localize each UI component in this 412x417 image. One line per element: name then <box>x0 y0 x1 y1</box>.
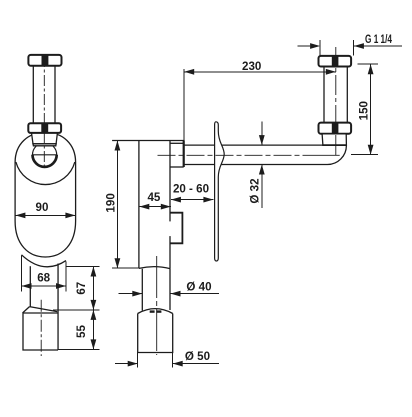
svg-text:190: 190 <box>104 193 117 212</box>
inlet ball joint (thin outline) <box>33 143 57 167</box>
svg-text:20 - 60: 20 - 60 <box>173 183 209 196</box>
dimension 190 (body height) <box>112 141 139 269</box>
svg-text:230: 230 <box>242 60 261 73</box>
cup grip marks <box>150 310 155 312</box>
dimension 20 - 60 (wall distance range) <box>171 199 214 201</box>
centerline of trap cup (front view) <box>40 300 42 356</box>
svg-text:45: 45 <box>147 191 160 204</box>
wall connection flange block <box>170 142 184 144</box>
dimension 230 (flange to riser axis) <box>184 69 336 141</box>
riser union nuts <box>319 55 352 134</box>
body bottom seam arc <box>22 255 67 267</box>
ball joint heavy lower arc and equator line <box>33 155 57 167</box>
svg-text:55: 55 <box>75 325 88 338</box>
trap body (side view) <box>112 140 184 142</box>
dimension G 1 1/4 (thread size) <box>298 40 402 55</box>
svg-text:G 1 1/4: G 1 1/4 <box>365 33 392 46</box>
trap body (obround bottle, front view) <box>15 132 76 257</box>
body bottom joint line <box>139 267 170 269</box>
body shoulder seam arc <box>16 162 75 185</box>
outlet neck (front view) <box>29 266 31 306</box>
centerline of outlet tube and cup <box>156 256 158 355</box>
riser taper below lower nut <box>322 134 346 145</box>
svg-text:Ø 40: Ø 40 <box>186 280 211 293</box>
dimension 55 (cup height) <box>59 310 100 350</box>
dimension 67 (neck height) <box>53 267 100 310</box>
inlet lower union nut (front view) <box>28 123 61 134</box>
dimension 68 (neck width) <box>22 256 67 292</box>
outlet tube (side view) <box>141 269 143 311</box>
dimension Ø 40 (outlet tube diameter) <box>119 293 219 295</box>
wall escutcheon rosette (side profile) <box>215 122 225 261</box>
dimension Ø 32 (wall pipe diameter) <box>261 122 263 209</box>
side outlet connector tab <box>170 213 182 244</box>
inlet taper cone below lower nut <box>32 133 58 146</box>
trap cup (side view) <box>138 314 173 353</box>
svg-text:Ø 50: Ø 50 <box>185 350 210 363</box>
centerline of inlet tailpipe <box>43 56 45 168</box>
svg-text:90: 90 <box>36 201 49 214</box>
inlet top union nut (front view) <box>28 54 61 66</box>
svg-text:150: 150 <box>358 101 371 120</box>
centerline of riser tube <box>335 47 337 155</box>
svg-text:67: 67 <box>75 282 88 295</box>
cup joint diagonal seam <box>30 307 58 312</box>
dimension 90 (body width) <box>15 214 75 216</box>
wall pipe with elbow and riser tube outline <box>184 67 347 165</box>
cup top edge (front view) <box>23 312 58 314</box>
cup dome cap (side view) <box>138 309 173 314</box>
inlet tailpipe (front view) <box>33 66 55 123</box>
dimension Ø 50 (cup diameter) <box>115 353 219 368</box>
svg-text:Ø 32: Ø 32 <box>249 178 262 203</box>
svg-text:68: 68 <box>37 271 50 284</box>
centerline of wall pipe <box>158 154 303 156</box>
dimension 45 (body depth) <box>139 206 171 208</box>
dimension 150 (riser height) <box>351 64 378 155</box>
cup joint left tip <box>23 307 30 313</box>
